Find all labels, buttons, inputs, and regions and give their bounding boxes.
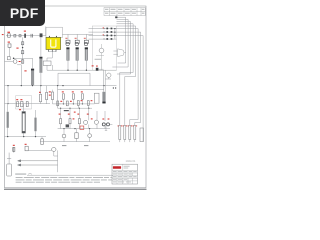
relay bottom pins [49, 50, 56, 53]
transistor T2 [99, 48, 104, 53]
stub from table to cascade [115, 16, 117, 18]
label red near D3 [16, 48, 18, 49]
junction dots y136.6 [7, 136, 36, 137]
part P1 [17, 102, 19, 107]
lamp H3 [84, 40, 88, 46]
resistor R3 [21, 60, 23, 63]
title block cell texts [113, 171, 136, 182]
logo sub text [124, 165, 130, 168]
left low area: wire y103.5 [5, 103, 51, 105]
dark diode at feed [96, 68, 99, 71]
right low resistors: R30 [119, 126, 121, 140]
small parts row y118-126 [60, 119, 99, 125]
diode matrix row 3 [89, 34, 117, 36]
switch body box [13, 147, 15, 151]
label red P4 [39, 92, 41, 93]
wire y136.6 [5, 136, 47, 138]
label red P5 [49, 95, 51, 96]
bracket component [140, 128, 143, 142]
op-amp U1 [113, 49, 125, 57]
label red R2 [8, 42, 10, 43]
diode chain x22.5 [22, 37, 24, 63]
transistor T3 drop wire [41, 137, 43, 139]
varistor RV1 dark block [40, 33, 43, 37]
part P3 [26, 102, 28, 107]
junction dots y128.6 [63, 128, 90, 129]
R31 [124, 126, 126, 140]
wire: upper center feed y108 [58, 104, 92, 108]
junction dots on bus [21, 85, 105, 86]
capacitor C1 cylinder [66, 47, 69, 60]
cap C6 cylinder [102, 92, 105, 104]
R33 [134, 126, 136, 140]
circle part CB [52, 147, 56, 151]
label red left of C5 [24, 70, 26, 71]
resistor ladder: R20 [7, 104, 9, 137]
junction dots y108 [60, 108, 89, 109]
PDF badge [0, 0, 45, 26]
comparator enclosure box [92, 26, 116, 70]
small marks under y141 [62, 144, 88, 147]
dark box part [66, 124, 69, 127]
node dot y58 [13, 58, 15, 60]
wire left to T1 [5, 61, 14, 63]
vertical feed drop x80.6 [78, 105, 88, 108]
label red R21 [19, 109, 21, 110]
label red A2 [70, 101, 72, 102]
label red at left border [2, 34, 4, 35]
stubs from hanging parts to low wire [53, 99, 83, 104]
diode D12 hanging [81, 94, 83, 99]
page background [0, 0, 149, 198]
lamp branch drops [68, 34, 86, 40]
diode matrix vertical tie [114, 29, 116, 39]
capacitor C101 on top row [31, 34, 33, 38]
wire: drop from badge area [45, 27, 47, 36]
wire T1 to vertical [17, 65, 21, 86]
diode matrix row 1 [89, 27, 117, 29]
dark label text under feed [64, 110, 69, 111]
notes rule line [27, 174, 113, 176]
wire: top input row bus [6, 35, 46, 37]
resistor R22 [34, 110, 36, 137]
lower bus y89.5 [58, 86, 104, 104]
arrow line pair 1 [18, 160, 58, 162]
part above feed A3 [77, 101, 79, 106]
junction dots on center low wire [63, 103, 83, 104]
relay top pins [49, 36, 56, 38]
sheet bottom edge shadow [4, 188, 147, 190]
label red D11 [72, 91, 74, 92]
wire between rings [105, 124, 113, 130]
wire above C4 [40, 37, 42, 57]
part P4 vertical [40, 94, 42, 102]
electrolytic cap C4 cylinder [39, 57, 42, 73]
connector box bottom-left [7, 164, 12, 176]
parts row y132-140 [62, 133, 91, 139]
label red above feed [96, 65, 98, 68]
transistor T3 [41, 139, 44, 145]
diode D11 hanging [72, 94, 74, 99]
wire: left drop from bus to low wire [7, 86, 9, 104]
wires below cylinders to mid bus [68, 61, 86, 71]
junction dots on left drop [7, 85, 8, 104]
label red right of T1 [19, 61, 21, 62]
bottom-left switch group [13, 147, 15, 152]
notes squiggle [28, 173, 32, 176]
arrow line pair 2 [18, 164, 58, 166]
stubs from y73 to bus [58, 73, 90, 85]
cascade wire 7 [117, 32, 141, 125]
center low wire y103.9 [53, 103, 95, 105]
wire above connector with plus mark [7, 153, 11, 164]
R32 [129, 126, 131, 140]
part P5 vertical [46, 92, 48, 99]
notes text line 3 [16, 181, 100, 183]
title block shading [112, 171, 137, 178]
notes text line 1 [16, 177, 113, 179]
label red left of red component [74, 112, 76, 113]
rectifier block box [43, 61, 51, 65]
label red above lamp H3 [84, 37, 86, 40]
revision table top-right [104, 8, 145, 16]
junction dot pair right of motor [113, 87, 116, 88]
cascade wire 5 [117, 26, 136, 126]
label red A4 [91, 100, 93, 101]
resistor R101 on top row [8, 34, 11, 37]
PDF badge text [0, 0, 45, 26]
label red part [25, 144, 27, 145]
label red D12 [81, 91, 83, 92]
motor symbol M1 [107, 73, 111, 77]
label text under T2 [95, 58, 101, 61]
twin vertical feed wires [98, 69, 111, 92]
wire below rectifier [47, 65, 52, 70]
resistor R21 tall outline [22, 104, 25, 137]
stubs P4 P5 [41, 86, 47, 104]
sheet border frame [5, 6, 147, 188]
wires around T2 [96, 44, 104, 70]
label red A1 [60, 101, 62, 102]
label red above varistor [24, 31, 26, 32]
label red P2 [20, 99, 22, 100]
transistor T1 circle [13, 60, 17, 64]
notes text line 2 [16, 179, 113, 181]
zener D3 [21, 51, 23, 54]
wire drop R2 [9, 47, 11, 56]
label red R10 [49, 91, 51, 92]
lamp H1 [66, 40, 70, 46]
wire y141.6 [40, 141, 110, 143]
label red A3 [81, 100, 83, 101]
label red near T2 [92, 65, 94, 66]
svg-text:102A 01: 102A 01 [126, 159, 136, 163]
diode D2 [22, 42, 24, 45]
junction dots on y70 [67, 70, 87, 71]
red outlined component [80, 126, 84, 129]
diode D102 on top row [19, 35, 21, 37]
part box [25, 146, 28, 151]
cascade wire 4 [117, 24, 134, 126]
cascade wire 6 [117, 29, 139, 126]
resistor bottom stubs [120, 140, 135, 143]
stubs rows y132-141 [64, 129, 90, 142]
wire y150.4 [28, 149, 52, 151]
cascade wire 2 [112, 19, 128, 67]
red labels above rings [102, 119, 104, 120]
label red P1 [16, 99, 18, 100]
lamp H2 [75, 40, 79, 46]
wire into C5 [32, 58, 34, 68]
relay contact enclosure above coil [46, 27, 62, 37]
small box part below R2 [7, 57, 10, 60]
electrolytic cap C5 cylinder [31, 69, 34, 85]
diode matrix row 2 [89, 31, 117, 33]
box component X1 [94, 93, 99, 103]
cascade wire 3 [117, 22, 131, 74]
revision table cell text [105, 9, 144, 14]
red logo [113, 166, 121, 169]
enclosure box left cluster [16, 96, 32, 109]
junction dots matrix [114, 28, 115, 36]
resistor R10 hanging [52, 90, 54, 102]
capacitor C3 cylinder [85, 47, 88, 60]
diode D10 hanging [62, 94, 64, 99]
part above feed A1 [57, 101, 59, 106]
wire y128.6 [58, 128, 110, 130]
diode D101 on top row [14, 34, 16, 37]
notes caption [15, 173, 26, 176]
diode matrix row 4 [89, 38, 117, 40]
label red D10 [62, 91, 64, 92]
title block rows [112, 164, 138, 184]
label red above lamp H1 [65, 37, 67, 40]
mid horizontal wire y73 [58, 72, 90, 74]
capacitor C2 cylinder [76, 47, 79, 60]
cascade wire 1 [117, 17, 126, 63]
vertical from circle to notes [54, 150, 58, 172]
title block outer [112, 164, 138, 184]
part above feed A2 [66, 101, 68, 106]
polarized cap dark bar top row [24, 34, 26, 38]
diode on cascade top [115, 16, 117, 18]
red pin dots at resistor tops [118, 125, 138, 126]
relay bottom wires to node [47, 52, 56, 61]
main bus y85.5 [5, 85, 117, 87]
label red above lamp H2 [75, 37, 77, 40]
vertical stubs below parts to y128.6 [61, 124, 105, 129]
part above feed A4 [87, 101, 89, 106]
cascade wire 8 outer [117, 36, 144, 128]
label red R101 [7, 32, 10, 33]
part P2 box [21, 101, 23, 106]
left column chain: resistor R2 [8, 44, 11, 47]
vertical drops to parts row [61, 108, 105, 121]
mid horizontal wire y70 [47, 69, 117, 71]
relay coil K1 yellow block [46, 37, 61, 49]
wire horizontal y58 [14, 57, 33, 59]
wire from relay to lamp feed [62, 33, 93, 35]
wire below C4 [40, 73, 42, 86]
center bottom: red label row [59, 114, 93, 120]
label red switch [13, 145, 15, 146]
twin sensor rings [102, 123, 109, 126]
node junction [22, 47, 23, 48]
